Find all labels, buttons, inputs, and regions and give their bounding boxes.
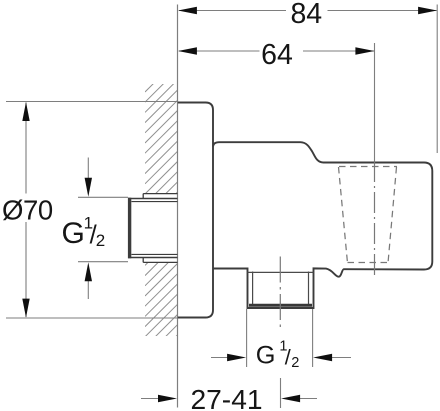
holder cone hidden lines	[339, 167, 398, 264]
svg-text:2: 2	[96, 231, 105, 250]
svg-text:2: 2	[291, 355, 299, 371]
dimension diameter 70	[6, 102, 177, 319]
svg-text:G: G	[62, 217, 85, 250]
extension line 64 (holder axis)	[374, 43, 376, 161]
svg-text:64: 64	[261, 39, 293, 71]
dimension 64	[179, 50, 374, 52]
wall hatch	[145, 57, 180, 367]
dimension 84	[179, 5, 437, 154]
svg-text:Ø70: Ø70	[2, 195, 53, 226]
wall face line	[177, 5, 179, 408]
dimension G1/2 left	[78, 158, 128, 300]
dimension G1/2 bottom	[211, 309, 351, 367]
holder centre line	[374, 161, 376, 277]
inlet collar at wall	[143, 194, 177, 263]
nipple centre line	[279, 257, 281, 331]
inlet stub (G1/2 behind wall)	[128, 198, 178, 259]
svg-text:84: 84	[290, 0, 322, 30]
body outline	[213, 142, 432, 308]
svg-text:27-41: 27-41	[190, 383, 262, 411]
svg-text:G: G	[256, 341, 276, 369]
outlet nipple thread detail	[248, 272, 314, 306]
dimension 27-41	[141, 378, 317, 408]
escutcheon flange	[178, 103, 213, 318]
svg-text:/: /	[285, 345, 291, 369]
